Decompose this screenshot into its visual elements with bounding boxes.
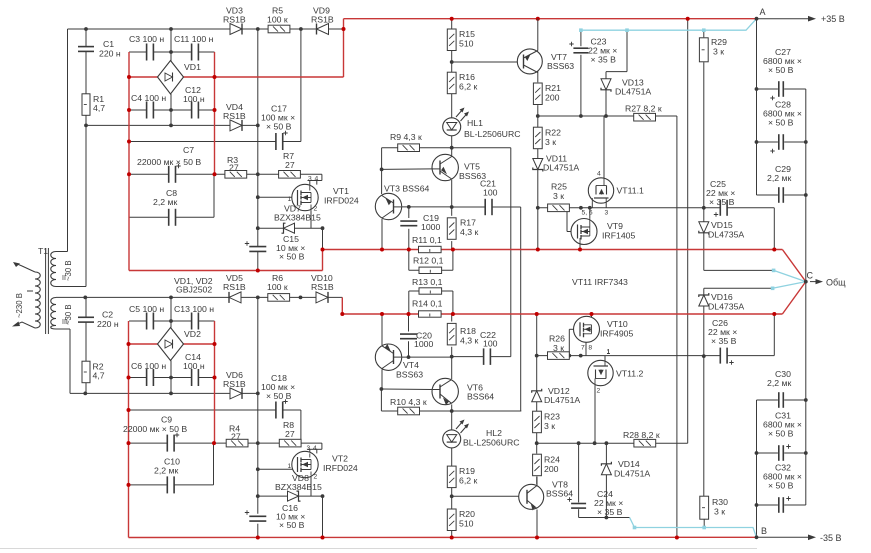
wire node C arrow [810, 281, 818, 283]
wire R11 R12 bracket [408, 250, 410, 271]
capacitor C15 [249, 246, 266, 248]
svg-text:RS1B: RS1B [223, 379, 246, 389]
svg-text:× 50 В: × 50 В [768, 65, 794, 75]
svg-text:× 35 В: × 35 В [597, 507, 623, 517]
svg-text:R26: R26 [549, 334, 565, 344]
resistor R17 [447, 218, 456, 240]
svg-text:BZX384B15: BZX384B15 [274, 213, 321, 223]
wire VT1 drain tie [321, 174, 323, 180]
capacitor C10 [166, 476, 168, 493]
wire VD7 row y228 [258, 227, 323, 229]
transformer T1 primary leads with arrows [15, 263, 35, 272]
capacitor C27 [778, 81, 780, 97]
resistor R8 [279, 439, 301, 447]
svg-text:100: 100 [483, 339, 498, 349]
resistor R11 [419, 246, 442, 252]
transformer T1 secondary III winding [51, 298, 56, 330]
svg-text:VT11.2: VT11.2 [616, 369, 644, 379]
capacitor C32 [778, 497, 780, 513]
wire R26 C26 row y355.6 [537, 355, 720, 357]
svg-text:2,2 мк: 2,2 мк [767, 378, 791, 388]
wire C18 row y410 [129, 409, 276, 411]
svg-text:200: 200 [544, 464, 559, 474]
wire VT11.1 bottom stubs [591, 203, 593, 208]
svg-text:-35 В: -35 В [820, 533, 842, 543]
wire red output rail upper y249.5 [323, 249, 783, 251]
capacitor C24 [571, 503, 586, 505]
zener VD16 [699, 295, 709, 306]
svg-text:IRF1405: IRF1405 [602, 231, 635, 241]
resistor R10 [398, 407, 420, 415]
wire C24 bottom row [579, 517, 630, 519]
wire VT7 base y62 [452, 61, 524, 63]
capacitor C22 [483, 348, 485, 365]
resistor R9 [398, 144, 420, 152]
svg-text:BZX384B15: BZX384B15 [275, 482, 322, 492]
capacitor C3 [146, 44, 148, 61]
wire VT3 collector riser x381.6 [381, 148, 383, 194]
wire cyan VD15 to node C [774, 270, 806, 281]
LED HL1 [443, 118, 461, 136]
svg-text:R24: R24 [544, 455, 560, 465]
wire bridge VD1 vertical [170, 29, 172, 61]
wire C5 C13 row y321 [129, 320, 147, 322]
zener VD8 [288, 491, 299, 501]
wire VT5 base y169 [382, 168, 432, 171]
svg-text:VD2: VD2 [184, 329, 201, 339]
transistor VT11.1 [588, 178, 613, 203]
transistor VT1 [292, 184, 318, 210]
wire C26 riser to output rail [773, 314, 775, 356]
wire VT10 source stub [585, 340, 587, 355]
wire node B arrow -35V [757, 536, 811, 538]
wire VT1 gate wire y197 [258, 196, 297, 198]
bridge rectifier VD2 [158, 328, 184, 361]
wire red +35V top rail [344, 18, 757, 20]
svg-text:4,7: 4,7 [93, 103, 105, 113]
svg-text:VT11.1: VT11.1 [617, 186, 645, 196]
svg-text:2: 2 [314, 474, 318, 481]
wire VD14 column [605, 443, 607, 464]
resistor R7 [279, 171, 301, 179]
capacitor C4 [146, 102, 148, 119]
svg-text:1: 1 [288, 196, 292, 203]
wire lower bridge bottom row y393 [70, 392, 258, 394]
wire VT11.1 drain riser [603, 116, 605, 178]
svg-text:C13 100 н: C13 100 н [174, 304, 214, 314]
svg-text:× 35 В: × 35 В [709, 197, 735, 207]
capacitor C25 [719, 200, 721, 216]
resistor R25 [548, 204, 570, 212]
capacitor C12 [191, 102, 193, 119]
wire C3 C11 row y52 [129, 51, 147, 53]
wire R13 R14 bracket [408, 291, 410, 314]
bridge rectifier VD1 [158, 61, 184, 95]
capacitor C28 [778, 134, 780, 150]
svg-text:R9 4,3 к: R9 4,3 к [390, 132, 422, 142]
wire node A arrow +35V [757, 18, 811, 20]
diode VD5 [229, 292, 241, 303]
resistor R23 [533, 411, 542, 433]
diode VD4 [230, 120, 242, 131]
wire R28 row y443.2 [537, 442, 688, 444]
wire R29 column [703, 30, 705, 37]
svg-text:6,2 к: 6,2 к [459, 82, 477, 92]
svg-text:VT3 BSS64: VT3 BSS64 [384, 184, 430, 194]
wire VT6 collector row y411 [381, 410, 521, 412]
svg-text:VT1: VT1 [333, 186, 349, 196]
svg-text:BL-L2506URC: BL-L2506URC [463, 438, 520, 448]
svg-text:2: 2 [597, 388, 601, 395]
svg-text:× 50 В: × 50 В [768, 118, 794, 128]
wire VD3 VD4 cathode column x258 [257, 29, 259, 246]
svg-text:R11 0,1: R11 0,1 [412, 235, 442, 245]
svg-text:IRF4905: IRF4905 [600, 329, 633, 339]
resistor R6 [268, 294, 290, 302]
wire red bridge VD1 output row y77 [129, 76, 158, 78]
svg-text:6,2 к: 6,2 к [459, 476, 477, 486]
resistor R28 [634, 439, 656, 447]
transistor VT7 [517, 49, 542, 74]
wire VD15 row to C [704, 269, 774, 271]
svg-text:2,2 мк: 2,2 мк [767, 173, 791, 183]
black junction dots [84, 27, 88, 31]
svg-text:27: 27 [285, 160, 295, 170]
wire R30 bottom stub [703, 519, 705, 527]
svg-text:R17: R17 [460, 218, 476, 228]
svg-text:C9: C9 [161, 415, 172, 425]
svg-text:VT2: VT2 [332, 454, 348, 464]
wire VD15 column [703, 208, 705, 222]
wire VT11.2 drain stub [604, 356, 606, 362]
svg-text:BL-L2506URC: BL-L2506URC [464, 129, 521, 139]
svg-text:VD14: VD14 [618, 459, 640, 469]
svg-text:22000 мк × 50 В: 22000 мк × 50 В [137, 157, 201, 167]
svg-text:R28 8,2 к: R28 8,2 к [623, 430, 660, 440]
svg-text:R20: R20 [459, 509, 475, 519]
wire R3 R7 row y174 [215, 173, 322, 175]
svg-text:2,2 мк: 2,2 мк [153, 197, 177, 207]
resistor R21 [533, 83, 542, 105]
svg-text:4: 4 [315, 175, 319, 182]
transistor VT2 [292, 451, 318, 477]
wire upper bridge bottom row y125 [86, 124, 258, 126]
svg-text:BSS63: BSS63 [547, 61, 574, 71]
wire R15 R16 HL1 VT5 R17 column [451, 19, 453, 29]
capacitor C19 [400, 220, 417, 222]
resistor R19 [447, 466, 456, 488]
transistor VT11.2 [588, 360, 613, 385]
wire C22 row y356.6 [452, 356, 484, 358]
svg-text:3 к: 3 к [714, 507, 725, 517]
svg-text:VT10: VT10 [607, 319, 628, 329]
svg-text:+35 В: +35 В [821, 14, 845, 24]
svg-text:× 50 В: × 50 В [768, 429, 794, 439]
svg-text:100: 100 [483, 188, 498, 198]
resistor R29 [699, 38, 708, 62]
transformer T1 core [45, 248, 47, 334]
zener VD13 [601, 79, 611, 90]
svg-text:R12 0,1: R12 0,1 [413, 256, 444, 266]
svg-text:4,7: 4,7 [93, 371, 105, 381]
capacitor C23 column [580, 30, 582, 46]
svg-text:Общ: Общ [826, 278, 846, 288]
svg-text:R25: R25 [551, 182, 567, 192]
svg-text:VT4: VT4 [403, 360, 419, 370]
transformer T1 secondary II winding [51, 252, 56, 287]
wire C18 riser to R8 [300, 410, 302, 443]
svg-text:C4 100 н: C4 100 н [131, 93, 166, 103]
svg-text:510: 510 [459, 39, 474, 49]
capacitor C14 [191, 369, 193, 386]
resistor R20 [447, 509, 456, 531]
resistor R15 [447, 29, 456, 51]
wire cyan VD16 to node C [773, 282, 806, 289]
svg-text:100 н: 100 н [183, 94, 205, 104]
wire VD16 column [703, 288, 705, 295]
capacitor C9 [166, 435, 168, 452]
zener VD12 [532, 391, 542, 402]
capacitor C21 [484, 199, 486, 215]
wire VT7 emitter R21 R22 VD11 column [537, 71, 539, 82]
polarity dash primary [27, 290, 33, 292]
LED HL2 [443, 430, 461, 448]
wire VT4 collector riser [381, 369, 383, 389]
resistor R14 [419, 311, 442, 317]
svg-text:4,3 к: 4,3 к [460, 336, 478, 346]
svg-text:220 н: 220 н [97, 319, 119, 329]
svg-text:4,3 к: 4,3 к [460, 227, 478, 237]
wire x805.8 output bus [805, 89, 807, 505]
svg-text:DL4751A: DL4751A [543, 163, 579, 173]
capacitor C29 [778, 187, 780, 203]
wire C9 R4 R8 row y443 [129, 442, 167, 444]
wire VT2 source to bottom rail [322, 496, 324, 537]
svg-text:R18: R18 [460, 326, 476, 336]
wire transformer II bottom lead [56, 286, 86, 288]
svg-text:3 к: 3 к [545, 137, 556, 147]
diode VD9 [317, 24, 329, 35]
svg-text:DL4751A: DL4751A [614, 469, 650, 479]
svg-text:RS1B: RS1B [311, 15, 334, 25]
wire red bridge VD2 output row y344 [129, 343, 159, 345]
wire x510.8 vertical VT5col-VT6emi [510, 148, 512, 357]
capacitor C7 [168, 166, 170, 183]
wire R18 VT6 HL2 R19 R20 column [451, 314, 453, 322]
svg-text:R14 0,1: R14 0,1 [412, 299, 443, 309]
wire cyan C24 to node B [630, 518, 757, 538]
wire VT3 emitter [381, 219, 383, 250]
wire left vertical to transformer II top [67, 29, 69, 252]
wire C8 row y217 [129, 216, 169, 218]
svg-text:100 к: 100 к [267, 282, 288, 292]
svg-text:VD15: VD15 [711, 220, 733, 230]
transistor VT8 [519, 484, 544, 509]
svg-text:R29: R29 [711, 37, 727, 47]
wire C31 row y453 [757, 452, 778, 454]
wire red output rail lower y314 [342, 313, 782, 315]
wire VT4 emitter [381, 314, 383, 345]
svg-text:VT11 IRF7343: VT11 IRF7343 [572, 277, 628, 287]
resistor R26 [548, 352, 570, 360]
svg-text:3: 3 [308, 175, 312, 182]
wire red minus column x128.5 lower [128, 321, 130, 538]
svg-text:~30 В: ~30 В [64, 304, 73, 325]
svg-text:5, 6: 5, 6 [582, 210, 593, 217]
svg-text:VT9: VT9 [607, 221, 623, 231]
svg-text:A: A [760, 7, 766, 17]
svg-text:C1: C1 [103, 39, 114, 49]
wire VT2 gate wire y469 [258, 468, 297, 470]
svg-text:3 к: 3 к [713, 47, 724, 57]
svg-text:DL4751A: DL4751A [615, 87, 651, 97]
svg-text:1000: 1000 [421, 222, 440, 232]
wire red VD10 riser [341, 297, 343, 314]
diode VD6 [230, 388, 242, 399]
zener VD11 [533, 159, 543, 170]
wire red plus column x214.5 upper [214, 52, 216, 174]
svg-text:R22: R22 [545, 128, 561, 138]
wire red minus column x129 upper [128, 52, 130, 271]
resistor R18 [447, 323, 456, 345]
capacitor C26 [719, 348, 721, 364]
svg-text:22000 мк × 50 В: 22000 мк × 50 В [123, 424, 187, 434]
transistor VT5 [432, 154, 458, 180]
wire VT9 source stub [579, 244, 581, 249]
svg-text:7, 8: 7, 8 [581, 345, 592, 352]
svg-text:GBJ2502: GBJ2502 [176, 285, 212, 295]
resistor R12 [419, 267, 442, 273]
wire VT9 drain stub [589, 208, 591, 219]
capacitor C31 [778, 445, 780, 461]
svg-text:DL4735A: DL4735A [708, 302, 744, 312]
svg-text:R27 8,2 к: R27 8,2 к [625, 104, 662, 114]
wire red common row y270.5 [129, 270, 323, 272]
zener VD7 [284, 223, 295, 233]
svg-text:R13 0,1: R13 0,1 [412, 277, 443, 287]
wire VD13 jog [626, 30, 628, 71]
wire C2 R2 column [85, 297, 87, 317]
resistor R3 [225, 171, 247, 179]
svg-text:1: 1 [607, 349, 611, 356]
svg-text:T1: T1 [38, 246, 48, 256]
svg-text:R21: R21 [545, 83, 561, 93]
resistor R13 [419, 288, 442, 294]
svg-text:RS1B: RS1B [223, 111, 246, 121]
wire C15 bottom stub [257, 252, 259, 271]
wire VT10 gate lead [569, 328, 573, 330]
zener VD15 [699, 222, 709, 233]
wire VD8 row y496 [258, 495, 323, 497]
capacitor C30 [778, 392, 780, 408]
svg-text:220 н: 220 н [99, 49, 121, 59]
svg-text:3 к: 3 к [544, 421, 555, 431]
svg-text:× 35 В: × 35 В [711, 336, 737, 346]
svg-text:HL2: HL2 [486, 428, 502, 438]
wire red VD9 to top rail riser [343, 19, 345, 77]
wire C25 riser to output rail [773, 208, 775, 250]
wire VT1 source [310, 211, 312, 229]
transistor VT6 [432, 378, 458, 404]
svg-text:VD16: VD16 [711, 292, 733, 302]
wire C16 bottom stub [257, 524, 259, 538]
wire VT8 base y496.3 [452, 495, 527, 497]
svg-text:R10 4,3 к: R10 4,3 к [390, 397, 427, 407]
svg-text:VD1: VD1 [184, 62, 201, 72]
svg-text:C: C [807, 271, 814, 281]
wire VT4 base row y357 [401, 356, 452, 358]
wire VT9 gate lead [567, 231, 571, 233]
svg-text:2,2 мк: 2,2 мк [154, 466, 178, 476]
wire C6 C14 row y377.5 [129, 377, 147, 379]
wire red -35V bottom rail [129, 536, 757, 538]
svg-text:C11 100 н: C11 100 н [174, 34, 214, 44]
wire x756.5 upper column [756, 19, 758, 195]
transistor VT3 [375, 193, 401, 219]
wire R9 row y147.7 [382, 147, 511, 149]
wire C4 C12 row y110 [129, 109, 147, 111]
svg-text:× 50 В: × 50 В [768, 481, 794, 491]
wire C10 row y485 [129, 484, 167, 486]
capacitor C23 [573, 47, 588, 49]
svg-text:C7: C7 [183, 145, 194, 155]
svg-text:IRFD024: IRFD024 [324, 196, 359, 206]
wire red diagonals to node C [782, 250, 805, 282]
capacitor C16 [249, 515, 266, 517]
wire red common column x214.5 lower [214, 321, 216, 443]
svg-text:R16: R16 [459, 72, 475, 82]
capacitor C8 [168, 209, 170, 226]
wire C30 row y400 [757, 399, 778, 401]
resistor R4 [226, 439, 248, 447]
wire C1 R1 column [85, 29, 87, 47]
svg-text:4: 4 [313, 445, 317, 452]
svg-text:R15: R15 [459, 29, 475, 39]
svg-text:× 50 В: × 50 В [266, 391, 292, 401]
svg-text:× 50 В: × 50 В [279, 252, 305, 262]
capacitor C2 [78, 316, 94, 318]
wire VT8 emitter to bottom rail [536, 510, 538, 538]
svg-text:HL1: HL1 [467, 118, 483, 128]
wire C25 row y207.8 [704, 207, 720, 209]
wire VD12 R23 R24 VT8 column [536, 314, 538, 391]
svg-text:DL4751A: DL4751A [544, 395, 580, 405]
svg-text:B: B [761, 526, 767, 536]
resistor R24 [533, 454, 542, 476]
capacitor C24 column [578, 443, 580, 502]
resistor R1 [82, 94, 90, 116]
svg-text:1000: 1000 [414, 339, 433, 349]
capacitor C5 [146, 313, 148, 330]
svg-text:~30 В: ~30 В [64, 260, 73, 281]
wire VT10 drain stub [591, 314, 593, 318]
wire C28 row y142 [757, 141, 778, 143]
capacitor C19 column [408, 207, 410, 218]
svg-text:~230 В: ~230 В [15, 293, 24, 318]
wire lower AC rail y297 [56, 296, 342, 298]
wire x520.7 vertical C21-VT6col [520, 207, 522, 411]
svg-text:× 50 В: × 50 В [266, 122, 292, 132]
wire R27 riser x676.9 to bottom rail [676, 116, 678, 538]
wire C17 row y141.5 [129, 141, 276, 143]
wire C21 row y207 [452, 206, 486, 208]
svg-text:4: 4 [597, 171, 601, 178]
svg-text:27: 27 [229, 163, 239, 173]
svg-text:2: 2 [314, 206, 318, 213]
svg-text:3 к: 3 к [553, 191, 564, 201]
capacitor C17 [275, 133, 277, 150]
svg-text:C3 100 н: C3 100 н [129, 34, 164, 44]
